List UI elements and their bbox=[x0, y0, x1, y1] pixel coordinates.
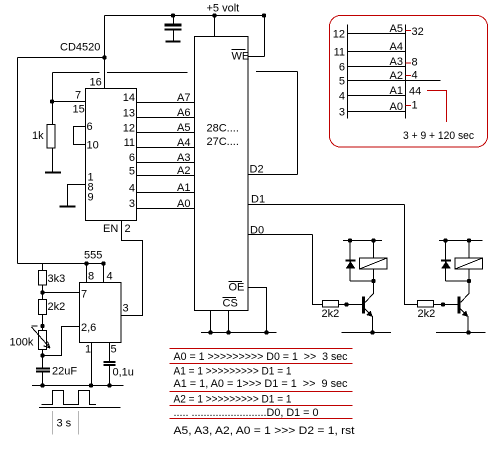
svg-text:16: 16 bbox=[90, 77, 102, 89]
svg-text:A1: A1 bbox=[177, 182, 190, 194]
red separator 5 bbox=[170, 418, 353, 420]
svg-text:11: 11 bbox=[124, 137, 135, 149]
svg-text:CD4520: CD4520 bbox=[60, 42, 100, 54]
wire 2k2 to base left bbox=[339, 304, 363, 306]
wire CD4520 supply branch horizontal bbox=[18, 57, 105, 59]
wire OE to ground bbox=[248, 288, 267, 333]
node cap junction on +5V rail bbox=[171, 13, 175, 17]
node 555 pin1 on ground rail bbox=[89, 383, 93, 387]
wire info row A0 bbox=[348, 111, 406, 113]
svg-text:10: 10 bbox=[87, 140, 99, 152]
relay K1 coil body bbox=[360, 258, 388, 269]
svg-text:7: 7 bbox=[75, 90, 81, 102]
wire 555 pin5 stub bbox=[109, 343, 111, 362]
transistor Q1 collector bbox=[365, 281, 374, 303]
diode D2 flyback right wire bbox=[445, 241, 447, 282]
svg-text:2k2: 2k2 bbox=[322, 308, 340, 320]
svg-text:7: 7 bbox=[81, 289, 87, 301]
wire ground rail left driver bbox=[342, 332, 392, 334]
wire D2 feedback loop top bbox=[256, 71, 298, 73]
svg-text:A1: A1 bbox=[390, 85, 403, 97]
diode D1 cathode bar bbox=[346, 260, 356, 262]
wire D0 bbox=[248, 234, 313, 236]
svg-text:5: 5 bbox=[339, 76, 345, 88]
diode D1 flyback left wire bbox=[349, 241, 351, 282]
capacitor 100n plates bbox=[165, 24, 182, 27]
node collector junction left bbox=[371, 279, 375, 283]
wire A1 bbox=[137, 192, 195, 194]
pin label OE overline bbox=[229, 281, 243, 283]
wire down to pin 7 node bbox=[52, 73, 54, 102]
svg-text:A2: A2 bbox=[390, 70, 403, 82]
pin label CS overline bbox=[223, 297, 237, 299]
guide line left (gray) bbox=[52, 411, 54, 435]
capacitor 22uF plates bbox=[36, 368, 50, 370]
resistor 1k wire top bbox=[52, 102, 54, 125]
wire info row A2 (extended) bbox=[348, 80, 441, 82]
node WE pullup junction on +5V rail bbox=[262, 13, 266, 17]
wire pins 1,8,9 to ground bbox=[68, 185, 86, 207]
svg-text:100k: 100k bbox=[10, 337, 34, 349]
svg-text:+5 volt: +5 volt bbox=[207, 3, 240, 15]
timer IC 555 body bbox=[80, 283, 122, 343]
node relay top left bbox=[371, 238, 375, 242]
wire 555 pins 2,6 to chain bbox=[43, 327, 80, 356]
wire EPROM ground stub 2 bbox=[228, 311, 230, 333]
node wiper/2,6 junction bbox=[40, 353, 44, 357]
diode D2 triangle bbox=[441, 261, 450, 268]
svg-text:14: 14 bbox=[123, 92, 135, 104]
svg-text:32: 32 bbox=[412, 26, 424, 38]
wire capacitor to ground bbox=[173, 31, 175, 42]
node diode top right bbox=[443, 238, 447, 242]
wire A5 bbox=[137, 132, 195, 134]
svg-text:22uF: 22uF bbox=[52, 366, 77, 378]
svg-text:3 s: 3 s bbox=[57, 418, 72, 430]
svg-text:27C....: 27C.... bbox=[207, 136, 239, 148]
node 555 pin4 junction bbox=[101, 261, 105, 265]
wire info row A5 bbox=[348, 33, 406, 35]
wire relay K1 top stub bbox=[373, 241, 375, 259]
wire 22uF to ground rail bbox=[42, 373, 44, 386]
svg-text:4: 4 bbox=[339, 91, 345, 103]
waveform square pulses bbox=[42, 391, 97, 405]
svg-text:EN: EN bbox=[103, 223, 118, 235]
node 2k2/pot junction bbox=[40, 324, 44, 328]
svg-text:A4: A4 bbox=[390, 41, 403, 53]
red connector from 44 bbox=[427, 91, 447, 123]
wire info box right vertical bbox=[405, 25, 407, 119]
svg-text:A5, A3, A2, A0 = 1 >>> D2 = 1,: A5, A3, A2, A0 = 1 >>> D2 = 1, rst bbox=[174, 425, 355, 437]
red separator 1 bbox=[170, 348, 353, 350]
node base wire dot left bbox=[344, 302, 348, 306]
relay K1 coil diagonal bbox=[360, 258, 388, 269]
wire D1 bbox=[248, 204, 405, 206]
node pin7 junction on chain bbox=[40, 290, 44, 294]
svg-text:5: 5 bbox=[111, 344, 117, 356]
node emitter ground left bbox=[370, 330, 374, 334]
resistor 1k body bbox=[47, 125, 55, 149]
svg-text:A0: A0 bbox=[390, 101, 403, 113]
wire EPROM Vcc stub bbox=[214, 16, 216, 37]
node diode top left bbox=[348, 238, 352, 242]
node 22uF on ground rail bbox=[40, 383, 44, 387]
svg-text:A1 = 1, A0 = 1>>> D1 = 1 >>: A1 = 1, A0 = 1>>> D1 = 1 >> 9 sec bbox=[174, 378, 348, 390]
svg-text:A1 = 1 >>>>>>>>> D1 = 1: A1 = 1 >>>>>>>>> D1 = 1 bbox=[174, 366, 292, 378]
wire info row A1 bbox=[348, 95, 406, 97]
svg-text:3 + 9 + 120 sec: 3 + 9 + 120 sec bbox=[403, 130, 474, 142]
svg-text:4: 4 bbox=[129, 183, 135, 195]
svg-text:2: 2 bbox=[125, 223, 131, 235]
ground bar of decoupling cap bbox=[166, 41, 181, 43]
wire +5V down to CD4520 pin 16 bbox=[104, 16, 106, 89]
wire timing chain top bbox=[42, 264, 44, 271]
node pin7 / 1k junction bbox=[50, 99, 54, 103]
svg-text:A2: A2 bbox=[177, 165, 190, 177]
red tick A3 bbox=[406, 62, 412, 64]
red tick A0 bbox=[406, 105, 412, 107]
relay K2 coil diagonal bbox=[455, 258, 483, 269]
svg-text:A3: A3 bbox=[177, 152, 190, 164]
svg-text:..... ........................: ..... .........................D0, D1 = … bbox=[174, 407, 319, 419]
pin label WE overline bbox=[232, 49, 246, 51]
svg-text:555: 555 bbox=[84, 250, 102, 262]
wire 3k3 to 2k2 bbox=[42, 285, 44, 300]
wire ground rail right driver bbox=[436, 332, 486, 334]
transistor Q1 base bar bbox=[362, 297, 365, 314]
EPROM U2 body 28C/27C bbox=[195, 37, 249, 311]
wire left supply vertical to 555 bbox=[17, 58, 19, 264]
svg-text:A2 = 1 >>>>>>>>> D1 = 1: A2 = 1 >>>>>>>>> D1 = 1 bbox=[174, 394, 292, 406]
svg-text:15: 15 bbox=[73, 104, 85, 116]
wire info row A4 bbox=[348, 51, 406, 53]
svg-text:9: 9 bbox=[88, 192, 94, 204]
wire A2 bbox=[137, 175, 195, 177]
red separator 3 bbox=[170, 391, 353, 393]
wire 555 pin4 stub bbox=[103, 264, 105, 283]
resistor 2k2 body (timing) bbox=[39, 300, 47, 315]
resistor 2k2 base left body bbox=[323, 301, 339, 308]
svg-text:A4: A4 bbox=[177, 137, 190, 149]
red tick A5 bbox=[406, 30, 412, 32]
wire 555 pin1 to ground bbox=[91, 343, 93, 386]
transistor Q2 emitter arrow bbox=[462, 310, 469, 317]
ground bar for pins 8,9 bbox=[60, 206, 76, 208]
capacitor 0,1u plates bbox=[104, 361, 116, 363]
wire relay K2 bottom stub bbox=[468, 269, 470, 281]
svg-text:8: 8 bbox=[412, 57, 418, 69]
svg-text:0,1u: 0,1u bbox=[113, 367, 134, 379]
svg-text:12: 12 bbox=[123, 123, 135, 135]
transistor Q2 collector bbox=[461, 281, 470, 303]
svg-text:1: 1 bbox=[85, 344, 91, 356]
wire D2 bbox=[248, 174, 298, 176]
guide line right (gray) bbox=[78, 411, 80, 435]
wire 555 supply rail bbox=[18, 263, 104, 265]
resistor 1k wire bottom bbox=[52, 148, 54, 173]
node EPROM Vcc junction on +5V rail bbox=[212, 13, 216, 17]
relay K2 coil body bbox=[455, 258, 483, 269]
svg-text:1k: 1k bbox=[32, 130, 44, 142]
transistor Q2 base bar bbox=[458, 297, 461, 314]
wire reset line over CD4520 (left part) bbox=[53, 72, 100, 74]
svg-text:OE: OE bbox=[229, 282, 245, 294]
node 0,1u on ground rail bbox=[107, 383, 111, 387]
svg-text:5: 5 bbox=[129, 166, 135, 178]
svg-text:WE: WE bbox=[232, 51, 250, 63]
svg-text:3k3: 3k3 bbox=[48, 273, 66, 285]
wire +5V power rail bbox=[105, 15, 265, 17]
node EPROM gnd stub2 bbox=[226, 330, 230, 334]
wire A6 bbox=[137, 117, 195, 119]
wire EPROM ground stub 1 bbox=[210, 311, 212, 333]
svg-text:2k2: 2k2 bbox=[48, 301, 66, 313]
wire WE pin stub bbox=[248, 56, 265, 58]
wire WE pullup vertical bbox=[264, 16, 266, 57]
node collector junction right bbox=[467, 279, 471, 283]
wire bottom ground rail bbox=[32, 385, 124, 387]
svg-text:3: 3 bbox=[123, 303, 129, 315]
diode D2 cathode bar bbox=[441, 260, 451, 262]
wire info row A3 bbox=[348, 66, 406, 68]
ground bar under 1k bbox=[45, 172, 61, 174]
waveform baseline bbox=[39, 407, 121, 409]
wire pin6-pin10 feedback loop bbox=[74, 127, 86, 145]
node EPROM gnd stub1 bbox=[208, 330, 212, 334]
svg-text:3: 3 bbox=[129, 198, 135, 210]
svg-text:A0 = 1 >>>>>>>>> D0 = 1 >> 3: A0 = 1 >>>>>>>>> D0 = 1 >> 3 sec bbox=[174, 351, 348, 363]
wire pin 7 stub bbox=[53, 101, 86, 103]
wire relay K1 bottom stub bbox=[373, 269, 375, 281]
wire A7 bbox=[137, 102, 195, 104]
info box red rounded border bbox=[330, 16, 488, 148]
svg-text:D2: D2 bbox=[250, 164, 264, 176]
svg-text:4: 4 bbox=[412, 70, 418, 82]
wire 555 pin7 stub bbox=[43, 292, 80, 294]
svg-text:D1: D1 bbox=[251, 194, 265, 206]
node 555 pin8 junction bbox=[84, 261, 88, 265]
wire A4 bbox=[137, 147, 195, 149]
svg-text:A0: A0 bbox=[177, 198, 190, 210]
red separator 2 bbox=[170, 363, 353, 365]
svg-text:A5: A5 bbox=[177, 122, 190, 134]
svg-text:6: 6 bbox=[339, 62, 345, 74]
wire diode/relay bottom rail left bbox=[350, 280, 374, 282]
wire info box left vertical bbox=[347, 25, 349, 119]
resistor 2k2 base right body bbox=[418, 301, 434, 308]
wire D2 feedback loop vertical bbox=[297, 72, 299, 175]
potentiometer 100k body bbox=[39, 331, 47, 350]
capacitor 100n decoupling top stub bbox=[173, 16, 175, 24]
svg-text:2k2: 2k2 bbox=[418, 308, 436, 320]
wire relay K2 top stub bbox=[468, 241, 470, 259]
wire CD4520 pin2 to 555 pin3 bbox=[122, 221, 143, 316]
node junction at pin16 column bbox=[102, 55, 106, 59]
wire 2k2 to base right bbox=[434, 304, 458, 306]
wire D0 down to left driver bbox=[313, 235, 323, 305]
node base wire dot right bbox=[441, 302, 445, 306]
wire left relay top rail bbox=[343, 240, 382, 242]
wire 2k2 to pot bbox=[42, 315, 44, 331]
red tick A2 bbox=[406, 75, 412, 77]
wire EPROM ground rail bbox=[201, 332, 277, 334]
svg-text:CS: CS bbox=[223, 298, 238, 310]
resistor 3k3 body bbox=[39, 271, 47, 286]
svg-text:13: 13 bbox=[123, 108, 135, 120]
svg-text:6: 6 bbox=[129, 152, 135, 164]
red separator 4 bbox=[170, 405, 353, 407]
transistor Q1 emitter bbox=[365, 309, 373, 333]
svg-text:A6: A6 bbox=[177, 107, 190, 119]
wire pot to 22uF bbox=[42, 350, 44, 368]
svg-text:8: 8 bbox=[88, 271, 94, 283]
transistor Q1 emitter arrow bbox=[366, 310, 373, 317]
svg-text:A7: A7 bbox=[177, 92, 190, 104]
svg-text:2,6: 2,6 bbox=[81, 322, 96, 334]
node emitter ground right bbox=[466, 330, 470, 334]
svg-text:28C....: 28C.... bbox=[207, 123, 239, 135]
svg-text:A3: A3 bbox=[390, 56, 403, 68]
node OE gnd bbox=[264, 330, 268, 334]
svg-text:3: 3 bbox=[339, 107, 345, 119]
wire reset line over CD4520 (right part) bbox=[107, 72, 188, 74]
node relay top right bbox=[467, 238, 471, 242]
svg-text:6: 6 bbox=[87, 121, 93, 133]
svg-text:1: 1 bbox=[412, 100, 418, 112]
diode D1 triangle bbox=[346, 261, 355, 268]
wire A0 bbox=[137, 208, 195, 210]
wire right relay top rail bbox=[439, 240, 483, 242]
wire D1 down to right driver bbox=[405, 205, 418, 305]
svg-text:12: 12 bbox=[333, 29, 345, 41]
svg-text:11: 11 bbox=[334, 47, 345, 59]
wire diode/relay bottom rail right bbox=[446, 280, 470, 282]
transistor Q2 emitter bbox=[461, 309, 469, 333]
potentiometer 100k arrow bbox=[32, 326, 51, 348]
wire 555 pin8 stub bbox=[86, 264, 88, 283]
svg-text:A5: A5 bbox=[390, 23, 403, 35]
op IC CD4520 body bbox=[86, 89, 137, 221]
wire 0,1u to ground rail bbox=[109, 366, 111, 386]
svg-text:4: 4 bbox=[107, 271, 113, 283]
wire A3 bbox=[137, 162, 195, 164]
svg-text:44: 44 bbox=[409, 86, 421, 98]
